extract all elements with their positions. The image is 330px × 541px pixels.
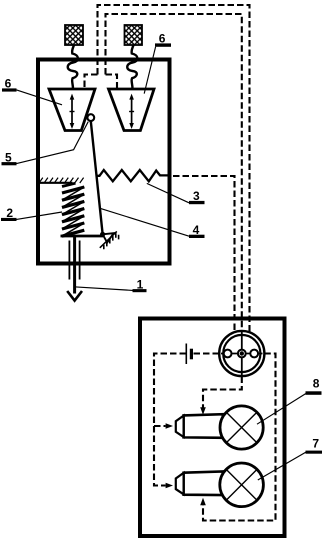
- connector plug P1: [219, 331, 264, 376]
- leader line for label 1: [76, 287, 133, 291]
- fixed ceiling with hatching: [36, 178, 84, 183]
- pivot roller 5: [87, 114, 94, 121]
- flexible wire (squiggle) from H1: [68, 45, 78, 89]
- pin 1: [224, 350, 232, 358]
- pin 2: [238, 350, 246, 358]
- leader line for label 6 right: [144, 47, 155, 94]
- wire from battery to left bus (dashed): [154, 354, 186, 486]
- label 3: [189, 189, 205, 204]
- battery B1: [186, 344, 193, 365]
- svg-text:8: 8: [313, 376, 320, 390]
- lamp 8 (circle with cross): [220, 406, 263, 449]
- wire W1 dashed outer loop (left vertical, top horizontal, right vertical to connector): [98, 5, 250, 332]
- enclosure box (lower unit): [140, 319, 285, 537]
- wire battery to connector (dashed): [194, 352, 219, 354]
- output rod with arrow 1: [67, 237, 82, 301]
- wire W2 dashed inner loop (left vertical, top horizontal, right vertical to connector): [106, 14, 242, 331]
- coil spring 2: [62, 183, 84, 236]
- horn body of device 8: [184, 414, 224, 438]
- heater block H1 (crosshatched): [65, 25, 83, 45]
- wire branch to horn 8 (dashed): [154, 425, 166, 427]
- spring-to-lever link bar: [61, 235, 104, 238]
- label 5: [2, 150, 17, 165]
- leader line for label 7: [258, 452, 306, 480]
- enclosure box (upper unit): [38, 60, 170, 264]
- arrow into horn 8 top: [200, 407, 206, 415]
- label 2: [1, 206, 17, 221]
- svg-text:3: 3: [193, 189, 200, 203]
- wire from connector right pin around to horn 7 (dashed): [203, 354, 276, 521]
- arrow into horn 8 inlet: [166, 423, 173, 429]
- resistive element 3 (zigzag): [96, 170, 169, 181]
- horn body of device 7: [184, 472, 224, 496]
- wire W3 dashed from resistive element 3 to connector: [173, 176, 235, 333]
- wire W1a dashed branch to left nozzle: [85, 75, 98, 90]
- leader line for label 5: [17, 122, 89, 164]
- double arrow in left nozzle: [70, 94, 75, 129]
- horn cap of device 7: [176, 473, 184, 494]
- arrow into horn 7 inlet: [166, 483, 173, 489]
- leader line for label 6 left: [17, 90, 63, 105]
- svg-text:7: 7: [312, 437, 319, 451]
- label 6 left: [2, 77, 17, 92]
- label 8: [306, 376, 322, 395]
- leader line for label 2: [17, 212, 63, 219]
- label 6 right: [155, 32, 171, 47]
- lamp 7 (circle with cross): [220, 463, 264, 507]
- label 4: [189, 223, 205, 238]
- pin 3: [250, 350, 258, 358]
- heater block H2 (crosshatched): [125, 25, 143, 45]
- pivot support 4: [100, 231, 119, 249]
- flexible wire (squiggle) from H2: [127, 45, 137, 89]
- double arrow in right nozzle: [129, 94, 134, 129]
- label 7: [306, 437, 323, 454]
- lever arm: [91, 121, 103, 234]
- wire W2a dashed branch to right nozzle: [106, 75, 118, 90]
- leader line for label 3: [147, 183, 189, 202]
- leader line for label 4: [100, 208, 189, 236]
- nozzle cone right (6): [109, 89, 155, 131]
- wire from connector middle pin down to horn 8 (dashed): [203, 377, 242, 408]
- leader line for label 8: [257, 394, 306, 425]
- label 1: [133, 277, 147, 292]
- arrow into horn 7 bottom: [200, 498, 206, 506]
- horn cap of device 8: [176, 416, 184, 437]
- nozzle cone left (6): [49, 89, 95, 131]
